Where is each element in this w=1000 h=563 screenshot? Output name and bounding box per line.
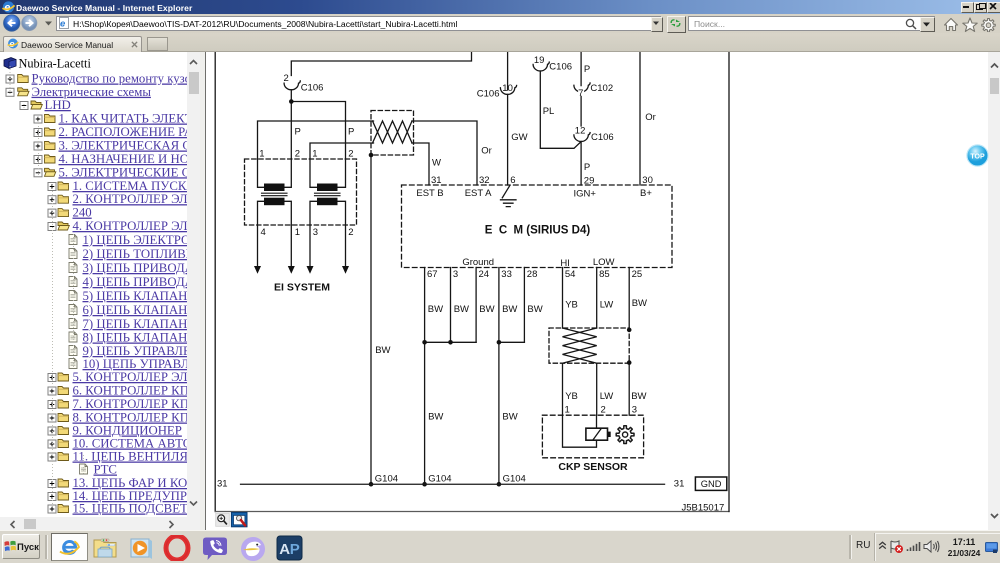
- svg-text:8) ЦЕПЬ КЛАПАНА УПРАВЛЕНИЯ: 8) ЦЕПЬ КЛАПАНА УПРАВЛЕНИЯ: [83, 331, 188, 345]
- wire ECM pin 54 HI YB: [561, 268, 563, 329]
- svg-text:3: 3: [452, 269, 457, 280]
- wire GW to ECM pin 6: [506, 94, 508, 185]
- svg-text:E C M (SIRIUS D4): E C M (SIRIUS D4): [484, 224, 590, 236]
- connector C102 pin 7: [573, 83, 589, 92]
- wire to left coil pin 2: [290, 102, 292, 160]
- connector C106 pin 10: [500, 86, 516, 95]
- EI SYSTEM output arrow at x=290.8: [287, 266, 294, 274]
- svg-text:Or: Or: [481, 146, 492, 157]
- opera button: [163, 535, 191, 561]
- svg-text:P: P: [294, 127, 300, 138]
- svg-text:HI: HI: [560, 258, 570, 269]
- svg-text:2: 2: [348, 149, 353, 160]
- wire C106 pin10 upper: [506, 52, 508, 90]
- tree root book icon: [4, 58, 16, 69]
- wire PL from C106-19: [540, 71, 581, 148]
- svg-text:31: 31: [673, 479, 684, 490]
- AP button: [276, 535, 303, 561]
- svg-text:15. ЦЕПЬ ПОДСВЕТКИ ПРИБОРОВ: 15. ЦЕПЬ ПОДСВЕТКИ ПРИБОРОВ: [73, 502, 188, 516]
- viber button: [202, 536, 228, 562]
- svg-text:e: e: [4, 2, 10, 13]
- CKP twisted zigzag wire B: [562, 328, 596, 363]
- junction pin 3 tie: [448, 340, 453, 345]
- svg-text:28: 28: [526, 269, 537, 280]
- svg-text:Nubira-Lacetti: Nubira-Lacetti: [19, 57, 92, 71]
- page frame right border: [728, 52, 730, 512]
- svg-text:7. КОНТРОЛЛЕР КПП: 7. КОНТРОЛЛЕР КПП: [73, 397, 188, 411]
- svg-text:11. ЦЕПЬ ВЕНТИЛЯТОРОВ ОТОПИТЕЛ: 11. ЦЕПЬ ВЕНТИЛЯТОРОВ ОТОПИТЕЛЯ: [73, 450, 188, 464]
- svg-text:W: W: [432, 158, 441, 169]
- EI SYSTEM output arrow at x=309.5: [306, 266, 313, 274]
- wire ECM pin 25 BW upper: [628, 268, 630, 330]
- svg-text:G104: G104: [502, 474, 525, 485]
- svg-text:2: 2: [283, 73, 288, 84]
- svg-text:PTC: PTC: [94, 463, 117, 477]
- svg-text:GND: GND: [700, 479, 721, 489]
- EI SYSTEM output arrow at x=345: [342, 266, 349, 274]
- CKP coil circuit wires: [562, 415, 596, 447]
- svg-text:31: 31: [217, 479, 228, 490]
- svg-text:P: P: [290, 541, 300, 558]
- CKP coil diagonal: [592, 428, 600, 440]
- wire C106-2 to junction: [290, 90, 292, 102]
- wire ECM pin 28 BW: [523, 268, 525, 343]
- ground node G104 a: [368, 482, 373, 487]
- wire P to ECM pin 29: [580, 142, 582, 186]
- svg-text:Электрические схемы: Электрические схемы: [32, 85, 152, 99]
- wire YB to CKP pin 1: [561, 363, 563, 415]
- ground bus wire 31: [239, 483, 664, 485]
- twisted pair shield box (CKP wires): [549, 328, 629, 363]
- svg-text:YB: YB: [565, 299, 578, 310]
- wire shield drain BW to ground: [370, 155, 372, 484]
- IE taskbar button (active): [51, 533, 88, 561]
- svg-text:BW: BW: [631, 298, 646, 309]
- svg-text:6. КОНТРОЛЛЕР КПП: 6. КОНТРОЛЛЕР КПП: [73, 384, 188, 398]
- svg-text:LW: LW: [599, 299, 613, 310]
- svg-text:29: 29: [583, 176, 594, 187]
- junction pins 33-28: [496, 340, 501, 345]
- svg-text:Ground: Ground: [462, 257, 494, 268]
- svg-text:9. КОНДИЦИОНЕР: 9. КОНДИЦИОНЕР: [73, 424, 182, 438]
- svg-text:25: 25: [631, 269, 642, 280]
- svg-text:31: 31: [431, 175, 442, 186]
- svg-text:G104: G104: [428, 474, 451, 485]
- page frame left border: [214, 52, 216, 512]
- svg-text:BW: BW: [479, 304, 494, 315]
- wire ECM pin 33 BW: [497, 268, 499, 485]
- svg-text:3: 3: [312, 227, 317, 238]
- twisted pair shield box (EST wires): [371, 111, 414, 156]
- wire EST A to ECM pin 32: [412, 121, 477, 185]
- svg-text:5. ЭЛЕКТРИЧЕСКИЕ СХЕМЫ: 5. ЭЛЕКТРИЧЕСКИЕ СХЕМЫ: [59, 165, 188, 179]
- wire Or to ECM pin 30 (B+): [639, 52, 641, 185]
- svg-text:32: 32: [479, 175, 490, 186]
- wire branch to right coil pin 2: [291, 102, 345, 160]
- svg-text:4. КОНТРОЛЛЕР ЭЛЕКТРОННЫЙ: 4. КОНТРОЛЛЕР ЭЛЕКТРОННЫЙ: [73, 219, 188, 233]
- connector C106 pin 2: [284, 81, 300, 90]
- ignition coil T1 primary winding: [264, 184, 285, 192]
- svg-text:G104: G104: [374, 474, 397, 485]
- svg-text:4. НАЗНАЧЕНИЕ И НОМЕРА: 4. НАЗНАЧЕНИЕ И НОМЕРА: [59, 152, 188, 166]
- junction shield drain: [368, 153, 373, 158]
- CKP pickup coil body: [585, 428, 607, 440]
- junction shield top CKP: [626, 328, 631, 333]
- svg-text:2) ЦЕПЬ ТОПЛИВНОГО НАСОСА: 2) ЦЕПЬ ТОПЛИВНОГО НАСОСА: [83, 247, 188, 261]
- wire LW to CKP pin 2: [595, 363, 597, 415]
- bird browser button: [240, 536, 266, 562]
- svg-text:2: 2: [294, 149, 299, 160]
- ignition coil T2 core: [314, 193, 340, 196]
- wire ECM pin 3 BW: [449, 268, 451, 343]
- svg-text:CKP SENSOR: CKP SENSOR: [558, 461, 628, 473]
- svg-text:C106: C106: [476, 88, 499, 99]
- CKP gear center hole: [622, 432, 627, 437]
- svg-text:85: 85: [599, 269, 610, 280]
- svg-text:Or: Or: [645, 112, 656, 123]
- svg-text:C102: C102: [590, 83, 613, 94]
- svg-text:1: 1: [312, 149, 317, 160]
- svg-text:1. СИСТЕМА ПУСКА И ЗАРЯДКИ: 1. СИСТЕМА ПУСКА И ЗАРЯДКИ: [73, 179, 188, 193]
- ignition coil T1 primary leads: [257, 159, 291, 187]
- svg-text:GW: GW: [511, 132, 527, 143]
- svg-text:LW: LW: [599, 391, 613, 402]
- svg-text:7: 7: [578, 88, 583, 99]
- svg-text:BW: BW: [427, 304, 442, 315]
- zoom-tool control icon: [231, 512, 247, 526]
- connector C106 pin 12: [573, 133, 589, 142]
- tray: [849, 535, 852, 559]
- EI SYSTEM box: [244, 159, 356, 225]
- CKP SENSOR box: [542, 415, 643, 458]
- svg-text:12: 12: [574, 126, 585, 137]
- svg-text:YB: YB: [565, 391, 578, 402]
- svg-text:67: 67: [427, 269, 438, 280]
- svg-text:1) ЦЕПЬ ЭЛЕКТРОПИТАНИЯ: 1) ЦЕПЬ ЭЛЕКТРОПИТАНИЯ: [83, 233, 188, 247]
- EI SYSTEM output arrow at x=257: [254, 266, 261, 274]
- svg-text:PL: PL: [542, 106, 554, 117]
- ignition coil T2 secondary leads: [310, 201, 346, 266]
- wire ECM pin 67 BW: [423, 268, 425, 485]
- page frame bottom border: [215, 511, 729, 513]
- twisted pair zigzag wire B: [372, 121, 412, 143]
- svg-text:33: 33: [501, 269, 512, 280]
- svg-text:P: P: [583, 64, 589, 75]
- ignition coil T2 primary leads: [310, 159, 346, 187]
- svg-text:J5B15017: J5B15017: [681, 502, 724, 513]
- svg-text:1: 1: [259, 149, 264, 160]
- svg-text:EST A: EST A: [464, 188, 491, 199]
- svg-text:9) ЦЕПЬ УПРАВЛЕНИЯ ВЕНТИЛЯЦИЕЙ: 9) ЦЕПЬ УПРАВЛЕНИЯ ВЕНТИЛЯЦИЕЙ: [83, 344, 188, 358]
- svg-text:e: e: [9, 39, 15, 49]
- explorer folder button: [92, 536, 118, 560]
- svg-text:7) ЦЕПЬ КЛАПАНА ХОЛОСТОГО: 7) ЦЕПЬ КЛАПАНА ХОЛОСТОГО: [83, 317, 188, 331]
- svg-text:BW: BW: [502, 412, 517, 423]
- GND box: [695, 477, 726, 490]
- svg-text:1. КАК ЧИТАТЬ ЭЛЕКТРИЧЕСКИЕ СХ: 1. КАК ЧИТАТЬ ЭЛЕКТРИЧЕСКИЕ СХЕМЫ: [59, 112, 188, 126]
- wire ECM pin 24 BW: [475, 268, 477, 343]
- wire to left coil pin 1: [257, 121, 373, 159]
- wire C102-7 to C106-12: [580, 92, 582, 126]
- svg-text:2: 2: [600, 405, 605, 416]
- svg-text:BW: BW: [527, 304, 542, 315]
- svg-text:4) ЦЕПЬ ПРИВОДА ДРОССЕЛЯ: 4) ЦЕПЬ ПРИВОДА ДРОССЕЛЯ: [83, 275, 188, 289]
- wire BW to CKP pin 3: [628, 363, 630, 416]
- wire top bus from C106 pin2: [291, 52, 471, 76]
- svg-text:EST B: EST B: [416, 188, 443, 199]
- svg-text:10) ЦЕПЬ УПРАВЛЕНИЯ НАСОСОМ: 10) ЦЕПЬ УПРАВЛЕНИЯ НАСОСОМ: [83, 357, 188, 371]
- svg-text:IGN+: IGN+: [573, 189, 596, 200]
- svg-text:5) ЦЕПЬ КЛАПАНА ПРОДУВКИ: 5) ЦЕПЬ КЛАПАНА ПРОДУВКИ: [83, 289, 188, 303]
- connector pin number 7: [578, 90, 584, 96]
- CKP reluctor gear: [616, 426, 634, 444]
- junction pins 67-3: [422, 340, 427, 345]
- svg-text:1: 1: [294, 227, 299, 238]
- ignition coil T1 secondary leads: [257, 201, 291, 266]
- svg-text:LOW: LOW: [592, 257, 614, 268]
- CKP twisted zigzag wire A: [562, 328, 596, 363]
- ECM module box: [401, 185, 672, 268]
- svg-text:B+: B+: [640, 188, 652, 199]
- ground node G104 c: [496, 482, 501, 487]
- wire EST B to ECM pin 31: [412, 143, 429, 185]
- svg-text:10: 10: [502, 83, 513, 94]
- svg-text:2: 2: [348, 227, 353, 238]
- svg-text:BW: BW: [631, 391, 646, 402]
- svg-text:1: 1: [564, 405, 569, 416]
- svg-text:3: 3: [631, 405, 636, 416]
- ECM internal ground switch: [502, 186, 510, 198]
- ground join bus pins 33-28: [498, 341, 524, 343]
- CKP coil terminal nub: [607, 432, 610, 437]
- wire to right coil pin 1: [310, 143, 374, 159]
- svg-text:30: 30: [642, 175, 653, 186]
- svg-text:4: 4: [260, 227, 265, 238]
- svg-text:240: 240: [73, 206, 92, 220]
- svg-text:BW: BW: [375, 345, 390, 356]
- ignition coil T1 secondary winding: [264, 198, 285, 206]
- svg-text:BW: BW: [502, 304, 517, 315]
- svg-text:8. КОНТРОЛЛЕР КПП: 8. КОНТРОЛЛЕР КПП: [73, 411, 188, 425]
- svg-text:6) ЦЕПЬ КЛАПАНА РЕЦИРКУЛЯЦИИ: 6) ЦЕПЬ КЛАПАНА РЕЦИРКУЛЯЦИИ: [83, 303, 188, 317]
- ignition coil T2 secondary winding: [317, 198, 338, 206]
- svg-text:13. ЦЕПЬ ФАР И КОРРЕКТОРА ФАР: 13. ЦЕПЬ ФАР И КОРРЕКТОРА ФАР: [73, 476, 188, 490]
- svg-text:24: 24: [478, 269, 489, 280]
- wmp button: [128, 536, 155, 560]
- wire ECM pin 85 LOW LW: [595, 268, 597, 329]
- wire P upper: [580, 52, 582, 86]
- ground join bus pins 67-3-24: [424, 341, 476, 343]
- svg-text:C106: C106: [591, 132, 614, 143]
- ground symbol: [500, 200, 516, 207]
- svg-text:EI SYSTEM: EI SYSTEM: [273, 282, 329, 294]
- ground node G104 b: [422, 482, 427, 487]
- schematic text labels: [217, 55, 724, 513]
- svg-text:C106: C106: [300, 83, 323, 94]
- svg-text:A: A: [279, 541, 290, 558]
- zoom-in control icon: [215, 513, 229, 526]
- svg-text:2. КОНТРОЛЛЕР ЭЛЕКТРОННЫЙ: 2. КОНТРОЛЛЕР ЭЛЕКТРОННЫЙ: [73, 192, 188, 206]
- svg-text:C106: C106: [549, 61, 572, 72]
- ignition coil T1 core: [261, 193, 287, 196]
- svg-text:Руководство по ремонту кузова: Руководство по ремонту кузова: [32, 72, 188, 86]
- svg-text:e: e: [60, 19, 66, 30]
- svg-text:6: 6: [510, 175, 515, 186]
- ignition coil T2 primary winding: [317, 184, 338, 192]
- svg-text:5. КОНТРОЛЛЕР ЭЛЕКТРОННЫЙ: 5. КОНТРОЛЛЕР ЭЛЕКТРОННЫЙ: [73, 370, 188, 384]
- svg-text:3) ЦЕПЬ ПРИВОДА ВЕНТИЛЯТОРА: 3) ЦЕПЬ ПРИВОДА ВЕНТИЛЯТОРА: [83, 261, 188, 275]
- svg-text:3. ЭЛЕКТРИЧЕСКАЯ СХЕМА: 3. ЭЛЕКТРИЧЕСКАЯ СХЕМА: [59, 139, 188, 153]
- svg-text:2. РАСПОЛОЖЕНИЕ РАЗЪЕМОВ: 2. РАСПОЛОЖЕНИЕ РАЗЪЕМОВ: [59, 125, 188, 139]
- svg-text:LHD: LHD: [45, 98, 71, 112]
- svg-text:10. СИСТЕМА АВТОМАТИЧЕСКОГО: 10. СИСТЕМА АВТОМАТИЧЕСКОГО: [73, 437, 188, 451]
- connector C106 pin 19: [533, 62, 549, 71]
- svg-text:BW: BW: [428, 412, 443, 423]
- junction at C106-2 split: [289, 99, 294, 104]
- twisted pair zigzag wire A: [372, 121, 412, 143]
- svg-text:P: P: [348, 127, 354, 138]
- svg-text:P: P: [583, 162, 589, 173]
- svg-text:BW: BW: [453, 304, 468, 315]
- svg-text:54: 54: [564, 269, 575, 280]
- svg-text:19: 19: [533, 55, 544, 66]
- junction shield bottom CKP: [626, 360, 631, 365]
